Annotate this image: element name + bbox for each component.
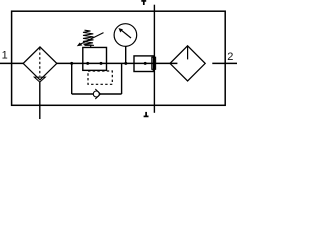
- svg-text:2: 2: [227, 51, 233, 63]
- wire port 1 inlet segment: [0, 62, 23, 64]
- lubricator L1 drip stem: [187, 46, 189, 59]
- regulator R1 spring stem: [90, 45, 92, 47]
- filter F1 body: [23, 47, 57, 80]
- filter F1 drain triangle: [34, 77, 45, 82]
- wire relief bottom segment right: [100, 93, 121, 95]
- node relief branch junction: [70, 62, 73, 65]
- regulator R1 spring: [83, 30, 94, 45]
- connector block B2 body: [152, 57, 156, 69]
- regulator R1 body: [83, 47, 107, 70]
- check valve V1 poppet chevron: [95, 89, 100, 99]
- node valve block port: [144, 62, 147, 65]
- node gauge junction: [124, 62, 127, 65]
- wire main flow line filter to lubricator: [57, 62, 178, 64]
- pressure gauge G1 dial: [114, 24, 137, 47]
- node regulator inlet port: [86, 62, 89, 65]
- node regulator outlet port: [100, 62, 103, 65]
- regulator R1 adjustment arrowhead: [77, 43, 83, 47]
- lubricator L1 body: [170, 46, 205, 81]
- wire relief up segment: [121, 63, 123, 94]
- wire relief down segment: [71, 63, 73, 94]
- check valve V1 seat circle: [93, 91, 99, 97]
- regulator R1 adjustment arrow: [80, 33, 104, 45]
- wire relief bottom segment left: [72, 93, 94, 95]
- filter F1 element (dashed): [39, 48, 41, 77]
- svg-text:1: 1: [2, 49, 8, 61]
- pressure gauge G1 needle: [121, 30, 131, 38]
- wire port 2 outlet segment: [212, 62, 237, 64]
- valve block B1 body: [134, 56, 153, 72]
- blind plug top: [141, 1, 146, 5]
- blind plug bottom: [144, 112, 149, 117]
- regulator R1 pilot box (dashed): [88, 71, 112, 84]
- wire vertical branch pipe: [153, 5, 155, 113]
- enclosure frame: [12, 11, 226, 105]
- wire gauge stem: [125, 46, 127, 63]
- wire filter drain line: [39, 82, 41, 119]
- pressure gauge G1 needle head: [119, 28, 123, 32]
